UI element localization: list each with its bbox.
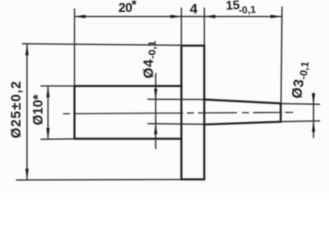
extension line at flange left face [180, 8, 182, 46]
Ø3 bottom extension line [281, 120, 320, 123]
arrowhead Ø10 bottom [46, 128, 49, 139]
arrowhead 15-dim left [204, 15, 215, 18]
arrowhead Ø25 bottom [25, 169, 28, 180]
Ø10 dimension line [47, 86, 49, 139]
Ø25 dimension line [26, 44, 28, 180]
Ø25 bottom extension line [16, 179, 181, 182]
tapered pin outline (Ø4 to Ø3) [204, 100, 280, 125]
extension line at flange right face [203, 8, 205, 46]
arrowhead 20-dim right [170, 15, 181, 18]
arrowhead Ø4 bottom (outside, pointing up) [154, 124, 157, 135]
extension line at pin end face [281, 7, 282, 104]
Ø4 dimension line [155, 73, 157, 149]
label 15 -0,1 [225, 0, 256, 17]
Ø4 bottom extension line [148, 123, 205, 126]
svg-text:20: 20 [118, 0, 132, 15]
Ø4 top extension line [148, 98, 205, 100]
top dimension line (20 / 4 / 15 chain) [75, 16, 282, 18]
svg-text:-0,1: -0,1 [238, 5, 256, 17]
arrowhead 20-dim left [75, 15, 86, 18]
arrowhead Ø3 top (outside, pointing down) [312, 94, 315, 105]
arrowhead Ø25 top [25, 44, 28, 55]
svg-text:4: 4 [190, 1, 198, 17]
arrowhead Ø3 bottom (outside, pointing up) [312, 121, 315, 132]
Ø10 top extension line [41, 85, 75, 87]
svg-text:Ø25±0,2: Ø25±0,2 [9, 80, 24, 138]
svg-text:Ø10*: Ø10* [31, 94, 46, 126]
arrowhead 15-dim right [271, 15, 282, 18]
Ø3 dimension line [313, 93, 315, 139]
Ø10 bottom extension line [41, 138, 75, 140]
extension line at shaft left face [74, 9, 76, 87]
Ø3 top extension line [281, 103, 320, 106]
shaft body outline (Ø10 cylinder) [75, 86, 182, 139]
arrowhead Ø4 top (outside, pointing down) [154, 89, 157, 100]
Ø25 top extension line [22, 44, 181, 45]
arrowhead Ø10 top [46, 86, 49, 97]
flange outline (Ø25 disc, 4 thick) [181, 46, 204, 180]
centerline [63, 112, 293, 113]
